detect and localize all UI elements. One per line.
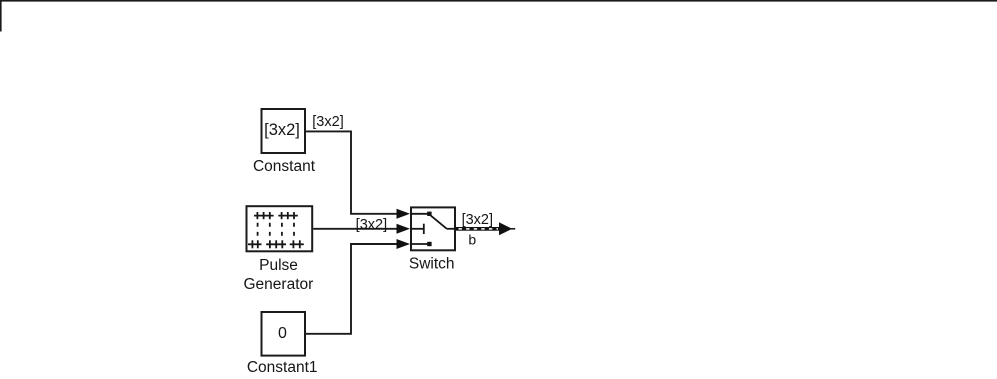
top level segment 1 bbox=[254, 215, 274, 217]
svg-text:b: b bbox=[468, 231, 476, 247]
top border line bbox=[0, 0, 997, 2]
wire from Pulse Generator to Switch input 2 bbox=[313, 228, 397, 230]
bottom tick marks bbox=[251, 240, 253, 248]
pulse waveform icon bbox=[248, 212, 304, 248]
arrowhead into Switch port 1 bbox=[397, 209, 411, 219]
arrowhead into Switch port 3 bbox=[397, 239, 411, 249]
dashed edge verticals bbox=[258, 223, 294, 236]
svg-text:Pulse: Pulse bbox=[259, 257, 298, 274]
contact line from port 1 bbox=[410, 213, 428, 215]
constant block Constant1 bbox=[262, 312, 306, 356]
svg-text:Constant1: Constant1 bbox=[247, 359, 318, 376]
constant block Constant bbox=[262, 109, 306, 153]
switch icon bbox=[410, 214, 456, 244]
output arrowhead bbox=[499, 222, 512, 235]
white dashes on wide line bbox=[459, 228, 499, 230]
svg-text:[3x2]: [3x2] bbox=[312, 114, 343, 130]
pulse generator block Pulse Generator bbox=[247, 206, 313, 251]
threshold tick bbox=[423, 224, 425, 234]
wire from Constant to Switch input 1 bbox=[306, 131, 397, 213]
left border tick bbox=[0, 0, 2, 32]
arm to output bbox=[447, 228, 456, 230]
selector arm diagonal bbox=[429, 214, 446, 228]
svg-text:[3x2]: [3x2] bbox=[264, 121, 300, 139]
switch block Switch bbox=[411, 207, 455, 250]
top level segment 2 bbox=[278, 215, 298, 217]
svg-text:0: 0 bbox=[278, 325, 287, 342]
bottom level segment A bbox=[248, 243, 262, 245]
bottom level segment B bbox=[266, 243, 286, 245]
svg-text:[3x2]: [3x2] bbox=[462, 212, 493, 228]
svg-text:Constant: Constant bbox=[253, 158, 316, 175]
top tick marks bbox=[256, 212, 258, 219]
svg-text:Switch: Switch bbox=[409, 256, 455, 273]
output stub line bbox=[511, 228, 515, 230]
wide output signal line bbox=[456, 227, 500, 231]
svg-text:Generator: Generator bbox=[244, 276, 314, 293]
contact line from port 3 bbox=[410, 243, 428, 245]
contact dot bottom bbox=[427, 242, 431, 246]
contact line from port 2 bbox=[410, 228, 424, 230]
contact dot top bbox=[427, 212, 431, 216]
arrowhead into Switch port 2 bbox=[397, 224, 411, 234]
bottom level segment C bbox=[290, 243, 304, 245]
wire from Constant1 to Switch input 3 bbox=[306, 244, 397, 334]
svg-text:[3x2]: [3x2] bbox=[356, 217, 387, 233]
